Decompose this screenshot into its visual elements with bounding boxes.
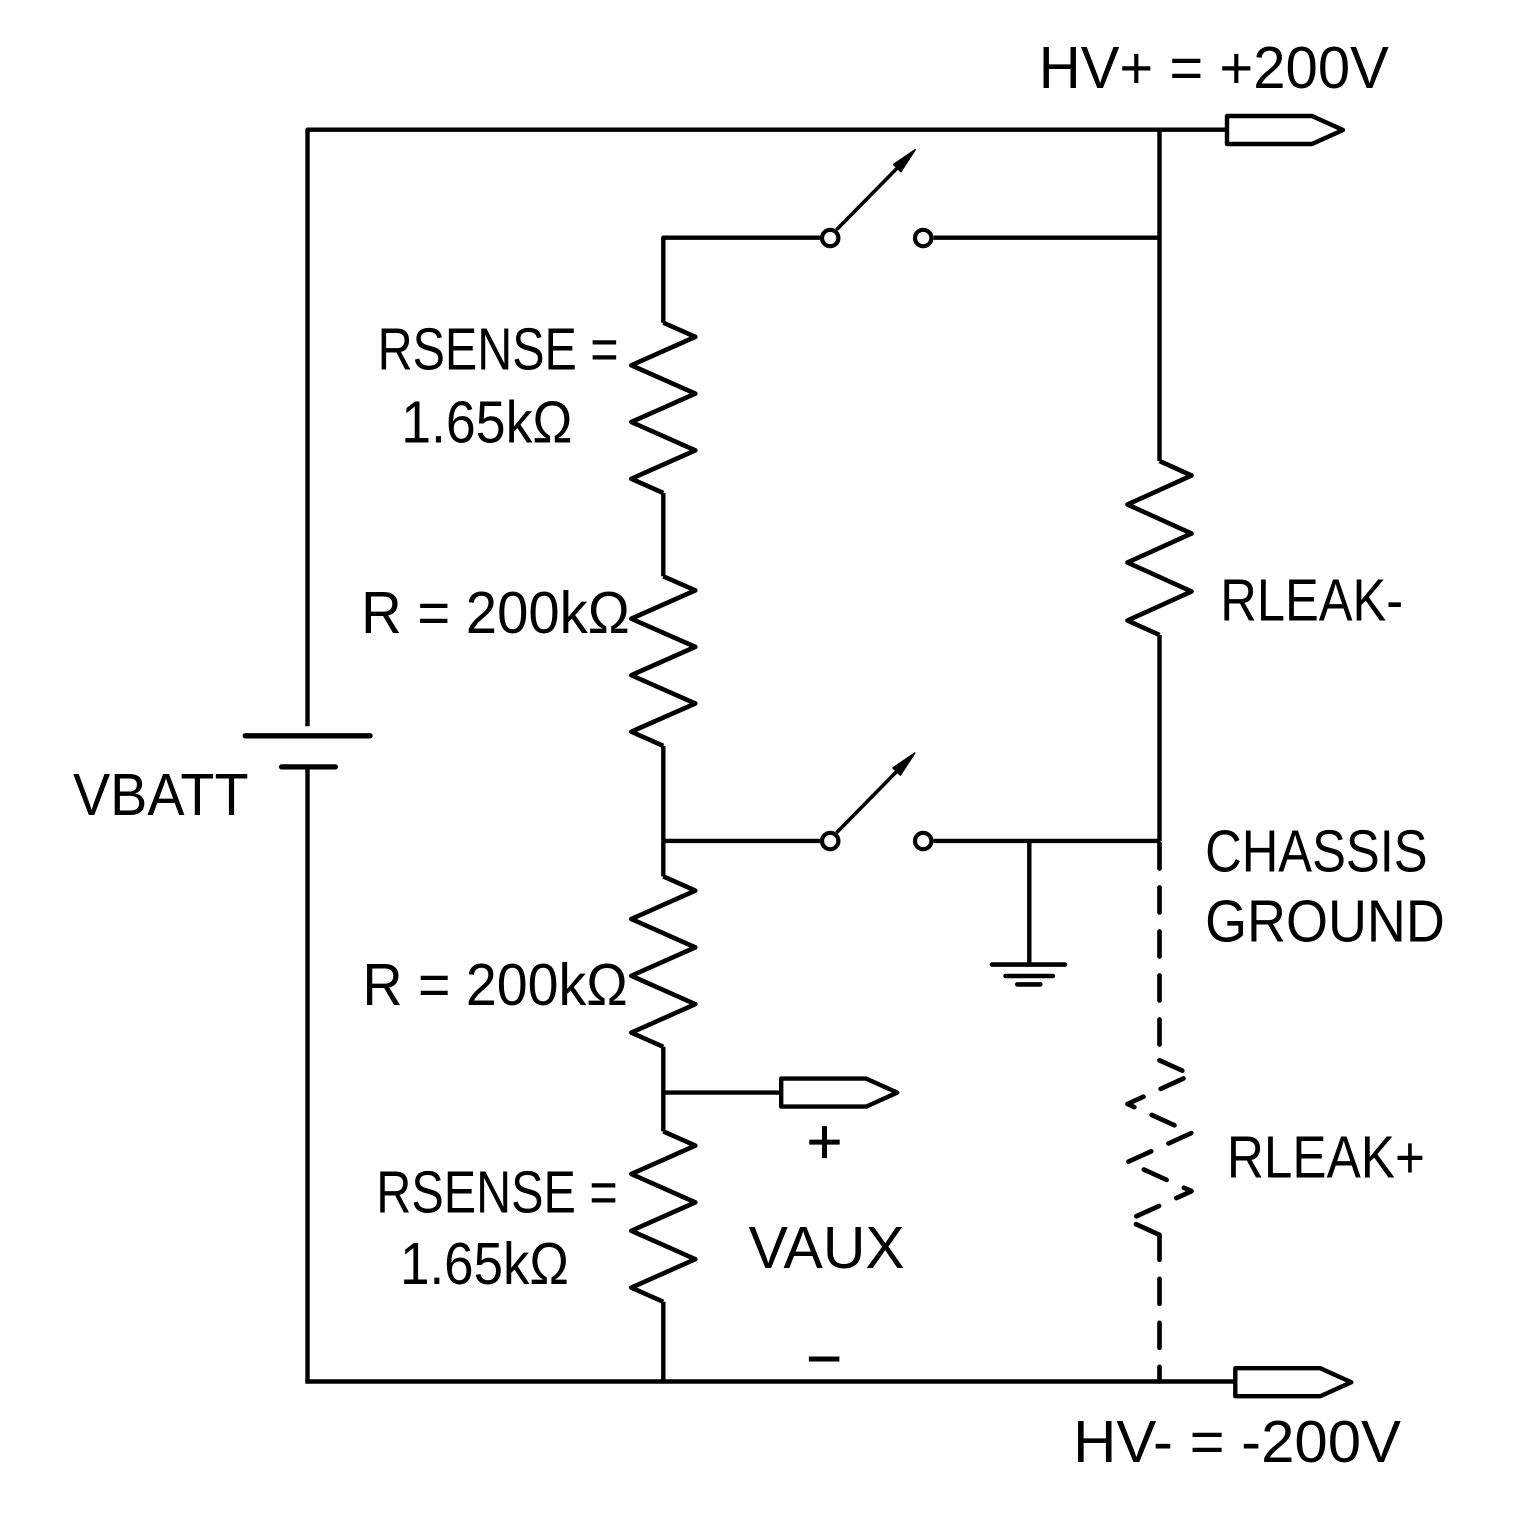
connector VAUX flag bbox=[781, 1079, 897, 1107]
connector HV- flag bbox=[1235, 1368, 1351, 1396]
wire: battery + up left rail and top rail to HV+ connector bbox=[308, 130, 1228, 727]
switch S2 left contact bbox=[822, 833, 838, 849]
resistor RLEAK- bbox=[1128, 461, 1192, 635]
svg-text:VBATT: VBATT bbox=[73, 762, 249, 828]
wire: RSENSE2 to bottom rail bbox=[661, 1302, 665, 1382]
resistor RLEAK+ (dashed) bbox=[1128, 1060, 1192, 1235]
svg-text:RSENSE =: RSENSE = bbox=[378, 317, 619, 383]
svg-text:RLEAK+: RLEAK+ bbox=[1227, 1125, 1425, 1191]
ground bar 1 bbox=[992, 962, 1065, 967]
resistor R lower (200k) bbox=[631, 876, 695, 1046]
wire: mid node down to R lower bbox=[661, 841, 665, 877]
svg-text:GROUND: GROUND bbox=[1205, 889, 1445, 955]
resistor RSENSE lower (1.65k) bbox=[631, 1131, 695, 1301]
wire: R lower to RSENSE2 with VAUX tap node bbox=[661, 1047, 665, 1132]
svg-text:R = 200kΩ: R = 200kΩ bbox=[363, 952, 628, 1018]
wire: VAUX tap bbox=[663, 1090, 781, 1094]
wire: mid node to switch S2 bbox=[663, 839, 820, 843]
ground bar 2 bbox=[1006, 974, 1053, 979]
wire: right rail RLEAK- to chassis node bbox=[1157, 635, 1161, 841]
switch S1 left contact bbox=[822, 230, 838, 246]
wire: battery - down left rail bbox=[305, 767, 309, 1382]
svg-text:CHASSIS: CHASSIS bbox=[1205, 818, 1428, 884]
wire: bottom rail bbox=[305, 1379, 1235, 1383]
switch S2 right contact bbox=[915, 833, 931, 849]
switch S2 blade arrowhead bbox=[893, 753, 915, 775]
resistor RSENSE upper (1.65k) bbox=[631, 323, 695, 493]
wire: switch S1 output to right rail bbox=[934, 235, 1160, 239]
wire: switch S1 input from divider top bbox=[663, 238, 820, 323]
svg-text:1.65kΩ: 1.65kΩ bbox=[400, 1231, 569, 1297]
ground: chassis ground stem bbox=[1027, 841, 1031, 965]
svg-text:RLEAK-: RLEAK- bbox=[1220, 568, 1403, 634]
VAUX minus sign bbox=[809, 1357, 840, 1362]
connector HV+ flag bbox=[1227, 116, 1343, 144]
svg-text:RSENSE =: RSENSE = bbox=[376, 1160, 617, 1226]
switch S2 blade bbox=[837, 772, 897, 833]
svg-text:R = 200kΩ: R = 200kΩ bbox=[361, 580, 630, 646]
svg-text:HV+ = +200V: HV+ = +200V bbox=[1039, 35, 1390, 101]
battery VBATT long plate bbox=[245, 733, 370, 738]
wire: RSENSE1 to R upper bbox=[661, 493, 665, 576]
switch S1 blade bbox=[837, 168, 898, 230]
wire: switch S2 output to right rail bbox=[934, 839, 1160, 843]
svg-text:1.65kΩ: 1.65kΩ bbox=[401, 390, 572, 456]
wire: R upper to mid node bbox=[661, 746, 665, 841]
svg-text:HV- = -200V: HV- = -200V bbox=[1073, 1409, 1402, 1475]
VAUX plus sign bbox=[809, 1126, 839, 1158]
switch S1 blade arrowhead bbox=[894, 150, 916, 172]
wire: right rail top segment bbox=[1157, 130, 1161, 461]
resistor R upper (200k) bbox=[631, 576, 695, 746]
ground bar 3 bbox=[1017, 982, 1040, 987]
wire: dashed RLEAK+ to bottom rail bbox=[1157, 1235, 1162, 1382]
wire: dashed chassis to RLEAK+ bbox=[1157, 844, 1162, 1061]
switch S1 right contact bbox=[915, 230, 931, 246]
svg-text:VAUX: VAUX bbox=[749, 1215, 905, 1281]
battery VBATT short plate bbox=[282, 764, 336, 769]
